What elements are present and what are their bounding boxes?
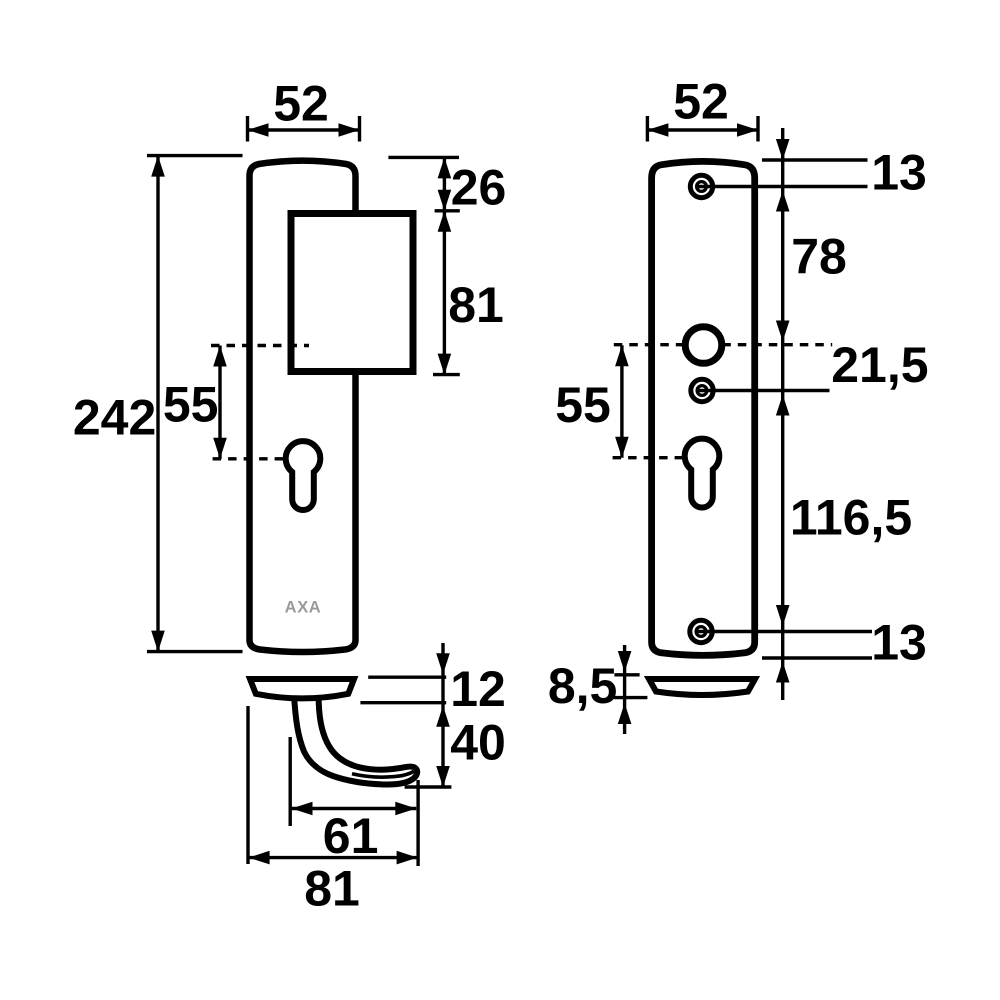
svg-text:AXA: AXA [285,599,322,617]
svg-text:55: 55 [555,377,611,433]
svg-text:40: 40 [450,715,506,771]
svg-text:26: 26 [451,160,507,216]
svg-text:13: 13 [871,615,927,671]
svg-text:8,5: 8,5 [548,658,618,714]
svg-text:81: 81 [304,861,360,917]
svg-text:81: 81 [448,277,504,333]
svg-text:116,5: 116,5 [790,490,912,546]
svg-text:78: 78 [791,229,847,285]
svg-text:13: 13 [871,145,927,201]
svg-text:61: 61 [323,808,379,864]
svg-text:52: 52 [273,76,329,132]
svg-text:55: 55 [163,377,219,433]
svg-text:21,5: 21,5 [831,337,928,393]
svg-text:12: 12 [450,661,506,717]
svg-text:242: 242 [73,390,156,446]
svg-text:52: 52 [673,74,729,130]
